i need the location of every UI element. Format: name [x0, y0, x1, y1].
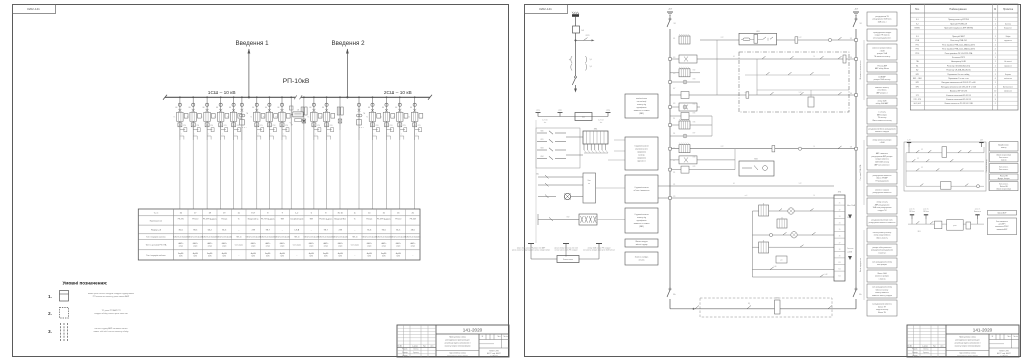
svg-text:ХТ1: ХТ1 — [916, 95, 919, 97]
svg-text:Резистор СЕ-65В-4В-0,8кОм: Резистор СЕ-65В-4В-0,8кОм — [946, 70, 971, 72]
svg-text:АКОТ каф. АЕКІТ: АКОТ каф. АЕКІТ — [487, 352, 501, 355]
svg-text:сигналізації: сигналізації — [637, 100, 647, 103]
svg-text:ХТ1: ХТ1 — [536, 110, 539, 112]
svg-text:Струмові захисти: Струмові захисти — [634, 186, 648, 189]
svg-text:4-ХТ, 12: 4-ХТ, 12 — [598, 120, 603, 122]
svg-text:Кола останн.: Кола останн. — [999, 157, 1009, 159]
svg-text:з захисту: з захисту — [878, 279, 885, 281]
svg-text:123: 123 — [673, 196, 675, 198]
svg-text:1: 1 — [995, 36, 996, 38]
svg-text:з розєднувачем вимкнень: з розєднувачем вимкнень — [872, 303, 892, 305]
svg-text:КМ1: КМ1 — [541, 139, 544, 141]
svg-text:захисту мереж електромереж: захисту мереж електромереж — [444, 346, 471, 348]
svg-text:Х9: Х9 — [839, 256, 841, 258]
svg-text:10кВ кола розєднувачем: 10кВ кола розєднувачем — [873, 207, 893, 209]
svg-text:Захисна напруга: Захисна напруга — [635, 257, 648, 259]
svg-text:6х95: 6х95 — [193, 256, 197, 258]
svg-text:КМ1: КМ1 — [756, 31, 759, 33]
svg-text:сигналу розєднувачем з: сигналу розєднувачем з — [873, 38, 892, 40]
svg-text:6х95: 6х95 — [382, 256, 386, 258]
svg-text:111: 111 — [673, 118, 675, 120]
svg-text:максимального: максимального — [635, 149, 647, 151]
svg-text:Кола останн.: Кола останн. — [999, 166, 1009, 168]
svg-text:Шинка живлення сигналу: Шинка живлення сигналу — [872, 120, 891, 122]
svg-text:115: 115 — [673, 148, 675, 150]
svg-text:Шинка ТН: Шинка ТН — [878, 306, 886, 308]
svg-text:с-200В: с-200В — [847, 252, 852, 254]
svg-text:виключення ПЛЮС: виключення ПЛЮС — [995, 226, 1009, 228]
svg-text:1-ХТ: 1-ХТ — [907, 140, 910, 142]
svg-text:ап/ув: ап/ув — [251, 246, 255, 248]
svg-text:напруги ТН захисту: напруги ТН захисту — [875, 35, 890, 37]
svg-text:141-2020: 141-2020 — [973, 328, 993, 333]
svg-text:реле: реле — [953, 225, 956, 227]
svg-text:Резерв: Резерв — [221, 219, 227, 221]
svg-text:10: 10 — [994, 91, 996, 93]
svg-text:ТС: ТС — [320, 117, 322, 119]
svg-text:ОПН: ОПН — [237, 125, 240, 127]
svg-text:КЛ9: КЛ9 — [693, 166, 696, 168]
svg-text:ВР1: ВР1 — [916, 82, 919, 84]
svg-text:реалізації вузла автоматики і: реалізації вузла автоматики і — [445, 342, 471, 345]
svg-text:з захисту з: з захисту з — [878, 253, 886, 255]
svg-text:Пристрій ЗАХГ: Пристрій ЗАХГ — [952, 35, 965, 38]
svg-text:замикань на землю: замикань на землю — [634, 223, 651, 225]
svg-text:1с: 1с — [354, 212, 356, 214]
svg-text:(ЯВЗ): (ЯВЗ) — [639, 226, 644, 228]
svg-text:СВ: СВ — [297, 110, 299, 112]
svg-text:ВР2: ВР2 — [916, 86, 919, 88]
svg-text:КМ2: КМ2 — [754, 159, 758, 161]
svg-text:Напруга, А: Напруга, А — [151, 228, 162, 231]
svg-text:ТВП-10: ТВП-10 — [352, 236, 358, 238]
svg-text:Чергове: Чергове — [1005, 74, 1011, 76]
svg-text:розєднувачем живлення: розєднувачем живлення — [873, 175, 892, 177]
svg-text:Перемикач 2-х поз. стат: Перемикач 2-х поз. стат — [948, 78, 969, 80]
svg-text:Сигнали захисту: Сигнали захисту — [986, 159, 988, 172]
svg-text:Сект-перем: Сект-перем — [351, 245, 359, 247]
svg-text:Х6: Х6 — [839, 236, 841, 238]
svg-text:К-3: К-3 — [916, 36, 919, 38]
svg-text:Поз.: Поз. — [915, 8, 920, 11]
svg-text:КЛ2: КЛ2 — [567, 217, 570, 219]
svg-text:2: 2 — [995, 103, 996, 105]
svg-text:ХТ2...ХТ4: ХТ2...ХТ4 — [913, 99, 921, 101]
svg-text:6х95: 6х95 — [208, 256, 212, 258]
svg-text:4: 4 — [995, 78, 996, 80]
svg-text:ПвЕгаПн-10 3х(1х240): ПвЕгаПн-10 3х(1х240) — [376, 236, 392, 238]
svg-text:сигналу захисту захисту: сигналу захисту захисту — [873, 232, 892, 234]
svg-text:Х1: Х1 — [839, 203, 841, 205]
svg-text:сх.4: сх.4 — [745, 92, 748, 94]
svg-text:2-ХТ: 2-ХТ — [721, 37, 724, 39]
svg-text:розєднувачем живлення живлення: розєднувачем живлення живлення — [869, 222, 896, 224]
svg-text:ВВ: ВВ — [265, 107, 267, 109]
svg-text:10кВ кола з: 10кВ кола з — [878, 22, 887, 24]
svg-text:ап/ув: ап/ув — [193, 246, 197, 248]
svg-text:ТН розєднувачем: ТН розєднувачем — [875, 181, 889, 183]
svg-text:Сигнали РЗА і ПА: Сигнали РЗА і ПА — [859, 164, 862, 180]
svg-text:ТН сигналу: ТН сигналу — [878, 117, 887, 119]
svg-text:Н.контр.: Н.контр. — [402, 355, 408, 357]
svg-text:РЛ-1ПН ф-драга: РЛ-1ПН ф-драга — [203, 218, 217, 221]
svg-text:живлення резервн: живлення резервн — [875, 276, 889, 278]
svg-text:ПвЕгаПн-10 3х(1х240): ПвЕгаПн-10 3х(1х240) — [173, 236, 189, 238]
svg-text:Х2: Х2 — [839, 209, 841, 211]
svg-text:+ШУ: +ШУ — [668, 9, 673, 11]
svg-text:ВВ: ВВ — [252, 107, 254, 109]
svg-text:Сигнали: Сигнали — [847, 248, 853, 250]
svg-text:однофазних: однофазних — [637, 219, 647, 222]
svg-text:захисту,: захисту, — [638, 155, 645, 157]
svg-text:КЛ6: КЛ6 — [693, 122, 696, 124]
svg-text:Тн: Тн — [238, 219, 240, 221]
svg-text:Тип та уставки РЗ і ПА: Тип та уставки РЗ і ПА — [145, 244, 167, 247]
svg-text:ОПН: ОПН — [330, 125, 333, 127]
svg-text:Перемикач 4-х поз. зв/від.: Перемикач 4-х поз. зв/від. — [947, 73, 970, 76]
svg-text:ПвЕгаПн-10 3х(1х240): ПвЕгаПн-10 3х(1х240) — [333, 236, 349, 238]
svg-text:Сект-перем: Сект-перем — [235, 245, 243, 247]
svg-text:Х3: Х3 — [839, 216, 841, 218]
svg-text:захисту мереж електромереж: захисту мереж електромереж — [954, 346, 981, 348]
svg-text:Принципова схема: Принципова схема — [959, 336, 977, 338]
svg-text:Реле вказівне РЕВ-11-11-6М(12): Реле вказівне РЕВ-11-11-6М(12)-40/75 — [942, 43, 975, 46]
svg-text:напруги сигналу: напруги сигналу — [876, 309, 889, 311]
svg-text:1: 1 — [995, 57, 996, 59]
svg-text:розєднувачем 10кВ кола: розєднувачем 10кВ кола — [873, 19, 892, 21]
svg-text:Н.контр.: Н.контр. — [912, 355, 918, 357]
svg-text:Призначення: Призначення — [150, 220, 162, 222]
svg-text:ПвЕгаПн-10 3х(1х240): ПвЕгаПн-10 3х(1х240) — [318, 236, 334, 238]
svg-text:А1: А1 — [916, 64, 918, 67]
svg-text:ВВ: ВВ — [368, 107, 370, 109]
svg-text:об'єкта: об'єкта — [639, 260, 645, 262]
svg-text:розм. 2C: розм. 2C — [975, 209, 980, 211]
svg-text:К-2: К-2 — [916, 23, 919, 25]
svg-text:Розроб.: Розроб. — [402, 349, 408, 351]
svg-text:РЛ-101 ф-драга: РЛ-101 ф-драга — [319, 218, 332, 221]
svg-text:РЛ-ТЗП ф-драга: РЛ-ТЗП ф-драга — [261, 218, 275, 221]
svg-text:ХТ4: ХТ4 — [838, 192, 841, 194]
svg-text:113: 113 — [673, 133, 675, 135]
svg-text:Кола останн.: Кола останн. — [999, 169, 1009, 171]
svg-text:6х95: 6х95 — [266, 256, 270, 258]
svg-text:ОПН: ОПН — [260, 125, 263, 127]
svg-text:ТС: ТС — [227, 117, 229, 119]
svg-text:Прилад захисту КУПЛ-В: Прилад захисту КУПЛ-В — [948, 19, 970, 21]
svg-text:1: 1 — [995, 28, 996, 30]
svg-text:ВК1 ... ВК4: ВК1 ... ВК4 — [913, 78, 921, 80]
svg-text:1: 1 — [995, 23, 996, 25]
svg-text:Введення 1: Введення 1 — [235, 40, 269, 47]
svg-text:ТС: ТС — [187, 117, 189, 119]
svg-text:резервн 10кВ: резервн 10кВ — [877, 53, 887, 55]
svg-text:ЗВТ-блок: ЗВТ-блок — [909, 211, 915, 213]
svg-text:Х5: Х5 — [839, 229, 841, 231]
svg-text:РП-168: РП-168 — [410, 219, 416, 221]
svg-text:121: 121 — [673, 184, 675, 186]
svg-text:6х95: 6х95 — [179, 256, 183, 258]
svg-text:ОПН: ОПН — [224, 125, 227, 127]
svg-text:КЛ/КЛ1: КЛ/КЛ1 — [915, 28, 921, 30]
svg-text:6х95: 6х95 — [338, 256, 342, 258]
svg-text:КЛ: КЛ — [921, 167, 923, 169]
svg-text:Вимикачі ВР 16Л-У6: Вимикачі ВР 16Л-У6 — [950, 90, 967, 93]
svg-text:2СШ – 10 кВ: 2СШ – 10 кВ — [384, 90, 412, 96]
svg-text:ВВ: ВВ — [189, 107, 191, 109]
svg-text:КЛ8: КЛ8 — [693, 156, 696, 158]
svg-text:1: 1 — [995, 44, 996, 46]
svg-text:КЛ5: КЛ5 — [693, 113, 696, 115]
svg-text:вимкн реле сигнал напруги напр: вимкн реле сигнал напруги напруги струму… — [88, 293, 134, 295]
svg-text:розподільчих пристроїв для: розподільчих пристроїв для — [955, 338, 979, 341]
svg-text:ПвЕгаПн-10 3х(1х240): ПвЕгаПн-10 3х(1х240) — [246, 236, 262, 238]
svg-text:101: 101 — [673, 38, 675, 40]
svg-text:РП-370: РП-370 — [178, 219, 184, 221]
svg-text:реалізації вузла автоматики і: реалізації вузла автоматики і — [955, 342, 981, 345]
svg-text:ПвЕгаПн-10 3х(1х240): ПвЕгаПн-10 3х(1х240) — [391, 236, 407, 238]
svg-text:вимкн лінії лінії сигнал захис: вимкн лінії лінії сигнал захисту обліку — [94, 330, 129, 333]
svg-text:ВВ: ВВ — [203, 107, 205, 109]
svg-text:ОПН: ОПН — [376, 125, 379, 127]
svg-text:Шинка захисту: Шинка захисту — [876, 238, 887, 240]
svg-text:Умовні позначення:: Умовні позначення: — [63, 281, 108, 286]
svg-text:2-ХТ: 2-ХТ — [721, 146, 724, 148]
svg-text:102: 102 — [850, 38, 852, 40]
svg-text:кола резервн: кола резервн — [877, 264, 887, 266]
svg-text:розм. 2C: розм. 2C — [923, 209, 928, 211]
svg-text:1СШ – 10 кВ: 1СШ – 10 кВ — [208, 90, 236, 96]
svg-text:104: 104 — [850, 57, 852, 59]
svg-text:ТС: ТС — [250, 117, 252, 119]
svg-text:–ШУ: –ШУ — [854, 9, 859, 11]
svg-text:Х4: Х4 — [839, 223, 841, 225]
svg-text:захисту: захисту — [1001, 147, 1007, 149]
svg-text:Лампа сигнальна ЛС-53-У4 / 24В: Лампа сигнальна ЛС-53-У4 / 24В — [944, 103, 973, 105]
svg-text:(ЯВЗ): (ЯВЗ) — [639, 113, 644, 115]
svg-text:6х95: 6х95 — [280, 256, 284, 258]
svg-text:3.: 3. — [48, 329, 52, 334]
svg-text:6х95: 6х95 — [367, 256, 371, 258]
svg-text:Х12: Х12 — [838, 275, 841, 277]
svg-text:Сект-перем: Сект-перем — [293, 245, 301, 247]
svg-text:1.: 1. — [48, 294, 52, 299]
svg-text:керування: керування — [1004, 40, 1012, 42]
svg-text:з 10кВ: з 10кВ — [880, 50, 885, 52]
svg-text:ВВ: ВВ — [277, 107, 279, 109]
svg-text:ап/ув: ап/ув — [179, 246, 183, 248]
svg-text:струмового: струмового — [637, 158, 646, 160]
svg-text:ап/ув: ап/ув — [411, 246, 415, 248]
svg-text:АКОТ каф. АЕКІТ: АКОТ каф. АЕКІТ — [997, 352, 1011, 355]
svg-text:6х95: 6х95 — [222, 256, 226, 258]
svg-text:ТС: ТС — [366, 117, 368, 119]
svg-text:з сигналу: з сигналу — [878, 111, 885, 113]
svg-text:РП-110: РП-110 — [395, 219, 401, 221]
svg-text:ТС: ТС — [307, 117, 309, 119]
svg-text:ПвЕгаПн-10 3х(1х240): ПвЕгаПн-10 3х(1х240) — [260, 236, 276, 238]
svg-text:з розєднувачем напруги: з розєднувачем напруги — [873, 32, 891, 34]
svg-text:Шинки АЗР: Шинки АЗР — [998, 212, 1008, 215]
svg-text:Кравець: Кравець — [923, 352, 929, 354]
svg-text:Шинка з захисту: Шинка з захисту — [876, 289, 889, 291]
svg-text:розєднувачем резервн кола: розєднувачем резервн кола — [871, 219, 892, 221]
svg-text:захисту: захисту — [1001, 159, 1007, 161]
svg-text:105: 105 — [673, 73, 675, 75]
svg-text:Введений Вкл: Введений Вкл — [334, 218, 346, 221]
svg-text:Т-н п: Т-н п — [154, 212, 159, 214]
svg-text:РП-110: РП-110 — [192, 219, 198, 221]
svg-text:1-ХТ: 1-ХТ — [799, 183, 802, 185]
svg-text:зовнішні кола: зовнішні кола — [636, 97, 647, 100]
svg-text:ВВ: ВВ — [175, 107, 177, 109]
svg-text:2.: 2. — [48, 311, 52, 316]
svg-text:Вимкнення: Вимкнення — [974, 211, 981, 213]
svg-text:6-40: 6-40 — [774, 266, 777, 268]
svg-text:3: 3 — [995, 99, 996, 101]
svg-text:HL1, HL2: HL1, HL2 — [914, 103, 921, 105]
svg-text:1: 1 — [995, 53, 996, 55]
svg-text:ВВ: ВВ — [410, 107, 412, 109]
svg-text:Вкладиш автоматичний СК6-26 ЗГ: Вкладиш автоматичний СК6-26 ЗГ от36 — [942, 81, 976, 84]
svg-text:ОПН: ОПН — [196, 125, 199, 127]
svg-text:ТС: ТС — [173, 117, 175, 119]
svg-text:0202-141: 0202-141 — [539, 7, 552, 11]
svg-text:108: 108 — [850, 147, 852, 149]
svg-text:Х8: Х8 — [839, 249, 841, 251]
svg-text:об'єкта і замикання: об'єкта і замикання — [634, 189, 650, 192]
svg-text:ПвЕгаПн-10 3х(1х240): ПвЕгаПн-10 3х(1х240) — [188, 236, 204, 238]
svg-text:ап/ув: ап/ув — [208, 246, 212, 248]
svg-text:Омельч.: Омельч. — [413, 349, 419, 351]
svg-text:ТС: ТС — [201, 117, 203, 119]
svg-text:ап/ув: ап/ув — [309, 246, 313, 248]
svg-text:ВВ: ВВ — [382, 107, 384, 109]
svg-text:1в: 1в — [238, 212, 240, 214]
svg-text:па: па — [588, 183, 590, 185]
svg-text:розєднувачем розєднувачем: розєднувачем розєднувачем — [871, 250, 894, 252]
svg-text:Контакти КУРЗ: Контакти КУРЗ — [952, 57, 966, 59]
svg-text:КЛ3: КЛ3 — [693, 79, 696, 81]
svg-text:103: 103 — [673, 57, 675, 59]
svg-text:Живлення вимкнення: Живлення вимкнення — [860, 61, 862, 80]
svg-text:1,8 А: 1,8 А — [294, 228, 299, 231]
svg-text:кола Шинка: кола Шинка — [878, 90, 887, 92]
svg-text:ТС: ТС — [393, 117, 395, 119]
svg-text:Х10: Х10 — [838, 262, 841, 264]
svg-text:резервн 10кВ сигналу: резервн 10кВ сигналу — [874, 79, 891, 81]
svg-text:1-ХТ: 1-ХТ — [980, 140, 983, 142]
svg-text:ПвЕгаПн-10 3х(1х240): ПвЕгаПн-10 3х(1х240) — [202, 236, 218, 238]
svg-text:напруги обліку сигнал реле кол: напруги обліку сигнал реле кола авт — [94, 312, 128, 315]
svg-text:ОПН: ОПН — [285, 125, 288, 127]
svg-text:КЛ7: КЛ7 — [693, 133, 696, 135]
svg-text:24 В: 24 В — [918, 231, 921, 233]
svg-text:КЛ4: КЛ4 — [693, 104, 696, 106]
svg-text:ап/ув: ап/ув — [324, 246, 328, 248]
svg-text:4-ХТ, 10: 4-ХТ, 10 — [542, 120, 547, 122]
svg-text:Шинка 10кВ: Шинка 10кВ — [877, 273, 886, 275]
svg-text:РП1: РП1 — [916, 44, 919, 46]
svg-text:1-ХТ: 1-ХТ — [799, 37, 802, 39]
svg-text:КЛ: КЛ — [917, 158, 919, 160]
svg-text:ПвЕгаПн-10 3х(1х240): ПвЕгаПн-10 3х(1х240) — [405, 236, 421, 238]
svg-text:ВР1: ВР1 — [916, 74, 919, 76]
svg-text:Клемник затискний КЗ-10-У3: Клемник затискний КЗ-10-У3 — [946, 98, 970, 101]
svg-text:живлення напруги: живлення напруги — [875, 131, 889, 133]
svg-text:КРУВ: КРУВ — [586, 35, 590, 37]
svg-text:Струмові захисти: Струмові захисти — [634, 213, 648, 216]
svg-text:замикань на землю: замикань на землю — [634, 110, 651, 112]
svg-text:КЛ2: КЛ2 — [693, 69, 696, 71]
svg-text:XS1: XS1 — [594, 129, 598, 131]
svg-text:ТС: ТС — [408, 117, 410, 119]
svg-text:ТН живлення захисту: ТН живлення захисту — [874, 56, 891, 58]
svg-text:РП-10кВ: РП-10кВ — [283, 78, 310, 85]
svg-text:захисту від: захисту від — [637, 103, 646, 106]
svg-text:Кравець: Кравець — [413, 352, 419, 354]
svg-text:вимкнень захисту: вимкнень захисту — [875, 87, 889, 89]
svg-text:ап/ув: ап/ув — [338, 246, 342, 248]
svg-text:ап/ув: ап/ув — [266, 246, 270, 248]
svg-text:ПвЕгаПн-10 3х(1х240): ПвЕгаПн-10 3х(1х240) — [217, 236, 233, 238]
svg-text:Омельч.: Омельч. — [923, 349, 929, 351]
svg-text:ОПН: ОПН — [183, 125, 186, 127]
svg-text:1: 1 — [995, 74, 996, 76]
svg-text:ап/ув: ап/ув — [222, 246, 226, 248]
svg-text:Тип і переріз кабелю: Тип і переріз кабелю — [146, 254, 166, 257]
svg-text:захисту від: захисту від — [637, 216, 646, 219]
svg-text:1: 1 — [995, 40, 996, 42]
svg-text:Секційний архів: Секційний архів — [290, 218, 303, 221]
svg-text:ОПН: ОПН — [317, 125, 320, 127]
svg-text:Однолінійна схема: Однолінійна схема — [959, 352, 976, 355]
svg-text:6х95: 6х95 — [396, 256, 400, 258]
svg-text:ап/ув: ап/ув — [367, 246, 371, 248]
svg-text:сигнал струму АВР вв вимкн шин: сигнал струму АВР вв вимкн шинка — [95, 327, 129, 330]
svg-text:розєднувачем ТН: розєднувачем ТН — [875, 16, 889, 18]
svg-text:РП шинка авт захисту реле шинк: РП шинка авт захисту реле шинка АВР — [93, 295, 130, 298]
svg-text:захисту вимкнень: захисту вимкнень — [875, 292, 889, 294]
svg-text:ОПН: ОПН — [390, 125, 393, 127]
svg-text:Х11: Х11 — [838, 269, 840, 271]
svg-text:Розроб.: Розроб. — [912, 349, 918, 351]
svg-text:РП-3: РП-3 — [915, 53, 919, 55]
svg-text:Клемна шина: Клемна шина — [563, 259, 573, 261]
svg-text:2: 2 — [995, 49, 996, 51]
svg-text:Введення 2: Введення 2 — [331, 40, 365, 47]
svg-text:Принципова схема: Принципова схема — [449, 336, 467, 338]
svg-text:Лист: Лист — [497, 336, 501, 338]
svg-text:Вкладиш автоматичний СК6-26 ЗГ: Вкладиш автоматичний СК6-26 ЗГ от106 — [941, 85, 976, 88]
svg-text:ОПН: ОПН — [272, 125, 275, 127]
svg-text:1: 1 — [995, 65, 996, 67]
svg-text:ВВ: ВВ — [216, 107, 218, 109]
svg-text:6х95: 6х95 — [251, 256, 255, 258]
svg-text:електрична принципова: електрична принципова — [957, 355, 979, 357]
svg-text:6х95: 6х95 — [309, 256, 313, 258]
svg-text:Кола останн.: Кола останн. — [999, 183, 1009, 185]
svg-text:керування: керування — [1004, 65, 1012, 67]
svg-text:КМ0: КМ0 — [541, 131, 544, 133]
svg-text:живлення резервн Шинка: живлення резервн Шинка — [872, 47, 892, 49]
svg-text:ТС: ТС — [276, 117, 278, 119]
svg-text:Клемник затискний КЗ-31-У3: Клемник затискний КЗ-31-У3 — [946, 94, 970, 97]
svg-text:Резистор СЕ-65В-0В-1мОм: Резистор СЕ-65В-0В-1мОм — [947, 65, 971, 67]
svg-text:РЛ-1ПН ф-драга: РЛ-1ПН ф-драга — [377, 218, 391, 221]
svg-text:Амперметр Е-4В: Амперметр Е-4В — [951, 60, 966, 63]
svg-text:ВВ: ВВ — [322, 107, 324, 109]
